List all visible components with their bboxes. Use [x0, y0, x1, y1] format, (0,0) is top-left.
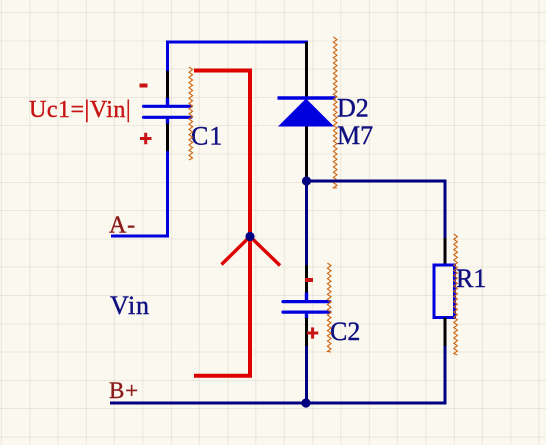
wire: red Vin source top horizontal	[194, 69, 252, 73]
polarity mark + of C1	[140, 133, 152, 145]
polarity mark - of C2	[305, 278, 313, 282]
capacitor C1 pin 2 (bottom, black)	[166, 124, 169, 152]
capacitor C1 bottom plate	[144, 116, 192, 119]
svg-text:Uc1=|Vin|: Uc1=|Vin|	[29, 97, 131, 123]
node junction dot at D2 anode / C2 / R1 net	[302, 176, 311, 185]
svg-text:B+: B+	[109, 378, 139, 403]
svg-text:R1: R1	[456, 264, 486, 293]
wire: navy vertical down to R1 top pin	[444, 180, 447, 239]
resistor R1 pin 2 (bottom, black)	[444, 318, 447, 347]
diode D2 cathode bar	[278, 96, 336, 100]
node dot on Vin arrow apex	[245, 232, 254, 241]
zigzag marker by R1	[454, 234, 458, 355]
wire: navy vertical from junction down to C2 top pin	[305, 181, 308, 266]
svg-text:D2: D2	[337, 94, 369, 123]
resistor R1 body rectangle	[434, 265, 455, 318]
arrowhead right leg of Vin arrow	[250, 237, 280, 266]
diode D2 anode pin (black vertical down to node)	[305, 126, 308, 181]
wire: top horizontal blue net from C1 to D2	[166, 41, 308, 44]
wire: blue horizontal stub of node A-	[111, 235, 169, 238]
diode D2 cathode pin (black vertical from top wire)	[305, 42, 308, 98]
resistor R1 pin 1 (top, black)	[444, 238, 447, 265]
wire: navy vertical from R1 bottom pin to bottom rail	[444, 346, 447, 405]
svg-text:M7: M7	[337, 121, 373, 150]
wire: red Vin source bottom horizontal	[194, 374, 252, 378]
diode D2 triangle body	[278, 99, 334, 127]
wire: navy vertical from C2 bottom pin to bottom rail	[305, 346, 308, 403]
capacitor C2 bottom plate	[283, 311, 330, 314]
capacitor C2 top lead stub	[305, 293, 308, 301]
node junction dot at bottom rail / C2	[301, 398, 310, 407]
zigzag marker by C2	[327, 263, 331, 352]
arrowhead left leg of Vin arrow	[222, 237, 251, 265]
wire: navy bottom rail B+	[110, 402, 447, 405]
wire: navy horizontal from junction to R1 branch	[307, 180, 447, 183]
capacitor C2 top plate	[283, 300, 330, 303]
svg-text:Vin: Vin	[110, 291, 150, 320]
capacitor C1 bottom lead stub	[166, 118, 169, 124]
wire: blue vertical drop from top-left corner to C1 top pin	[166, 41, 169, 72]
zigzag marker by C1	[189, 67, 193, 160]
capacitor C1 top plate	[144, 105, 192, 108]
wire: red Vin source vertical	[248, 69, 252, 378]
capacitor C1 pin 1 (top, black)	[166, 71, 169, 99]
wire: blue vertical from C1 bottom pin to node A	[166, 151, 169, 238]
capacitor C2 pin 1 (top, black)	[305, 265, 308, 293]
capacitor C1 top lead stub	[166, 98, 169, 106]
capacitor C2 bottom lead stub	[305, 313, 308, 319]
svg-text:C2: C2	[330, 317, 360, 346]
svg-text:A-: A-	[109, 213, 136, 239]
zigzag marker by D2	[333, 37, 337, 188]
capacitor C2 pin 2 (bottom, black)	[305, 318, 308, 346]
polarity mark + of C2	[307, 327, 318, 338]
polarity mark - of C1	[140, 84, 148, 88]
svg-text:C1: C1	[191, 122, 223, 151]
